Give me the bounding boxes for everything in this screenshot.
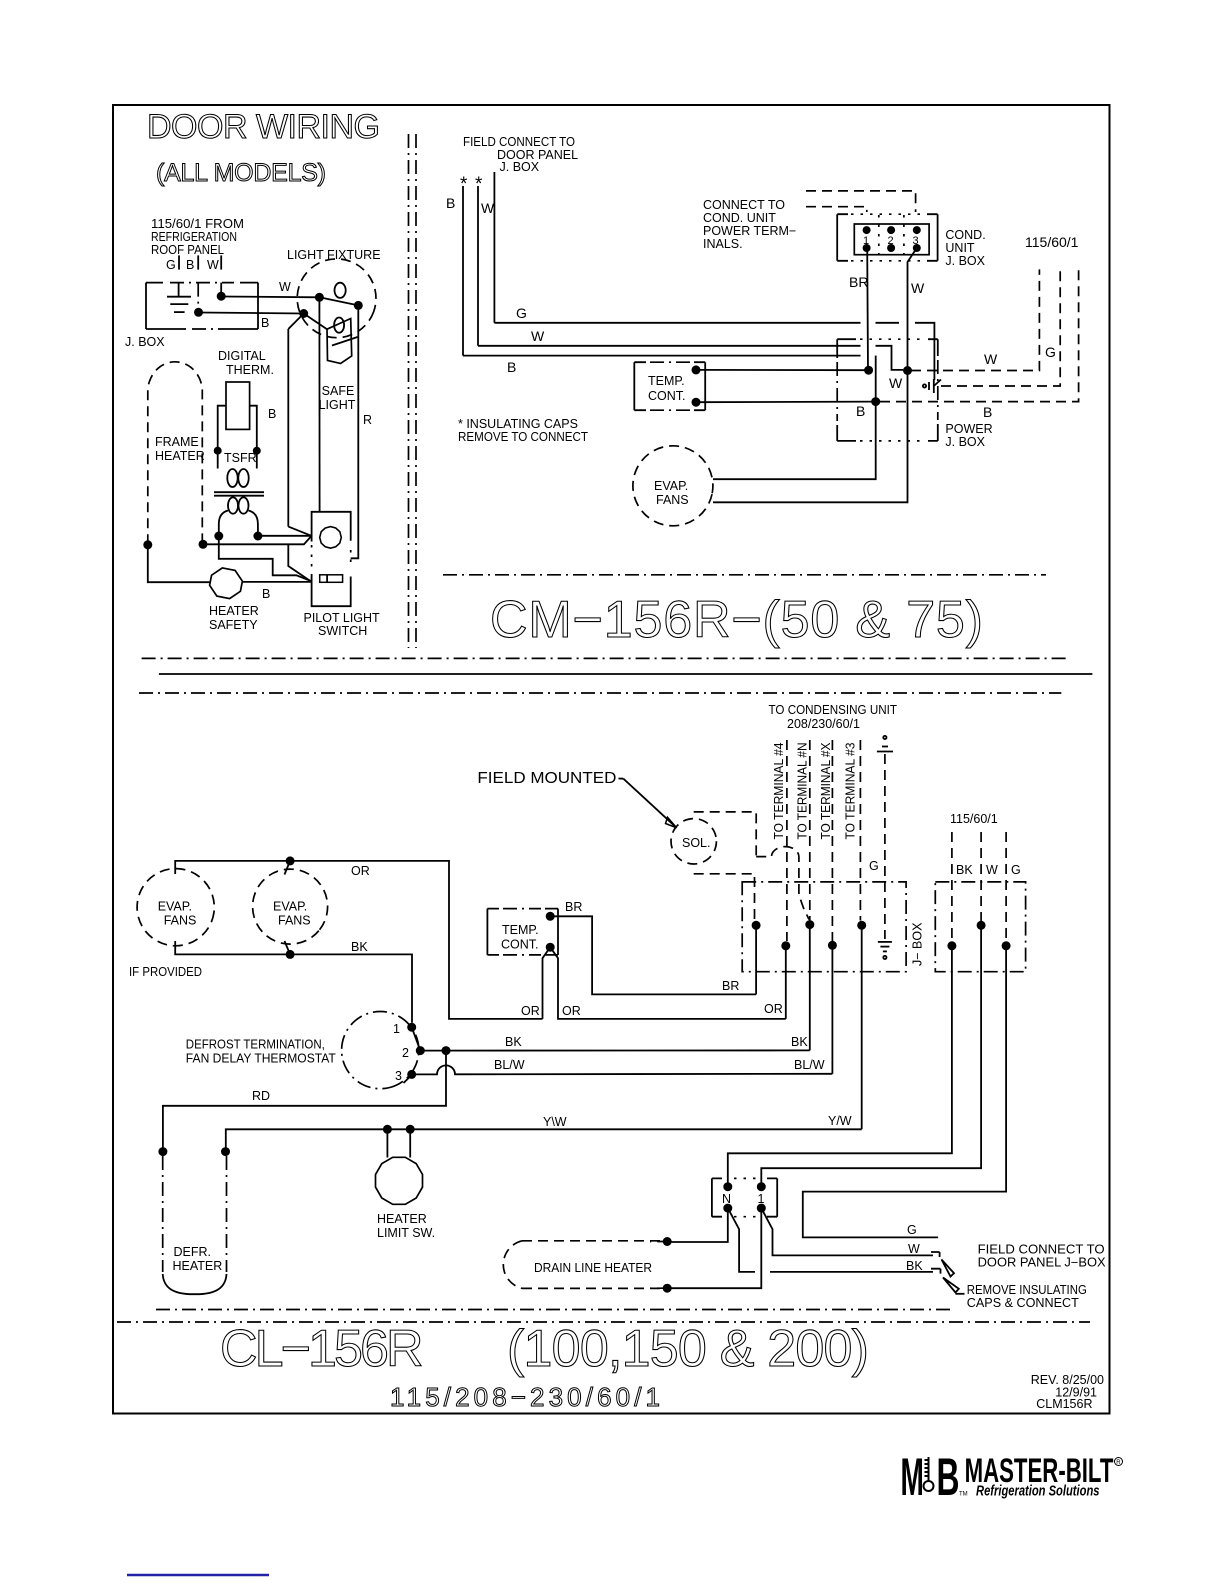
junction box J.BOX (roof panel): [125, 283, 258, 349]
wire (evap fans W): [713, 371, 908, 503]
svg-text:OR: OR: [351, 864, 370, 878]
svg-text:FIELD CONNECT TO: FIELD CONNECT TO: [978, 1243, 1105, 1257]
node jbox OR terminal: [781, 941, 790, 950]
svg-text:W: W: [481, 200, 495, 216]
svg-text:115/60/1: 115/60/1: [1025, 234, 1079, 250]
node heater limit stub right: [406, 1125, 415, 1134]
svg-text:B: B: [262, 587, 270, 601]
ground symbol (roof panel J.BOX): [167, 283, 191, 313]
svg-text:BK: BK: [505, 1035, 522, 1049]
node temp cont lower terminal 1: [546, 912, 555, 921]
svg-text:LIGHT: LIGHT: [319, 398, 356, 412]
svg-text:BR: BR: [849, 274, 868, 290]
svg-text:W: W: [889, 375, 903, 391]
temperature control TEMP. CONT. (lower): [487, 909, 558, 955]
node temp cont lower terminal 2: [546, 943, 555, 952]
bottom divider dash-dot 2: [117, 1321, 1090, 1323]
node defrost heater left: [158, 1147, 167, 1156]
pilot light switch: [304, 512, 381, 638]
svg-text:Refrigeration Solutions: Refrigeration Solutions: [976, 1484, 1100, 1500]
bottom divider dash-dot 1: [156, 1309, 953, 1311]
svg-text:CONT.: CONT.: [501, 938, 539, 952]
wire BR (cond terminal 1 down): [866, 248, 869, 370]
wire (B drop to pilot light arrow): [288, 527, 311, 536]
svg-text:REMOVE INSULATING: REMOVE INSULATING: [967, 1283, 1087, 1297]
svg-text:G: G: [516, 305, 527, 321]
svg-text:BL/W: BL/W: [494, 1058, 525, 1072]
node thermostat terminal 3: [407, 1070, 416, 1079]
node cond terminal 3 bottom: [913, 244, 921, 252]
svg-text:W: W: [207, 258, 219, 272]
border frame: [113, 105, 1110, 1414]
svg-text:*: *: [460, 174, 468, 195]
node W (roof feed): [207, 255, 226, 300]
svg-text:TSFR: TSFR: [224, 451, 257, 465]
node drain heater top: [663, 1237, 672, 1246]
node TSFR secondary left: [214, 532, 223, 541]
node jbox Y/W terminal: [857, 921, 866, 930]
svg-text:SAFE: SAFE: [322, 384, 355, 398]
svg-text:TO TERMINAL #N: TO TERMINAL #N: [796, 743, 810, 840]
wire W (cond terminal 3 down): [908, 248, 926, 371]
svg-text:BK: BK: [351, 940, 368, 954]
note CONNECT TO COND. UNIT POWER TERMINALS: [703, 198, 796, 251]
svg-text:B: B: [937, 1448, 960, 1507]
svg-text:W: W: [986, 863, 998, 877]
section divider solid: [159, 673, 1093, 675]
svg-text:B: B: [446, 195, 455, 211]
svg-text:POWER: POWER: [945, 422, 992, 436]
node (light fixture R junction): [354, 301, 363, 310]
solenoid SOL: [671, 819, 716, 864]
wire B dashed (115/60/1): [880, 269, 1079, 420]
wire (fixture to pilot switch vertical): [318, 297, 320, 512]
wire B to light fixture: [199, 313, 304, 331]
node jbox BR terminal: [752, 921, 761, 930]
wire (TSFR right to pilot light arrow): [258, 535, 312, 537]
svg-text:TO TERMINAL #4: TO TERMINAL #4: [772, 742, 786, 839]
svg-text:HEATER: HEATER: [377, 1212, 427, 1226]
note 115/60/1 FROM REFRIGERATION ROOF PANEL: [151, 217, 244, 257]
svg-text:POWER TERM−: POWER TERM−: [703, 224, 796, 238]
wire Y\W: [226, 1115, 862, 1152]
wire W (door panel): [475, 174, 903, 370]
svg-text:DEFROST TERMINATION,: DEFROST TERMINATION,: [186, 1038, 325, 1052]
svg-text:BK: BK: [956, 863, 973, 877]
section divider dash-dot 2: [139, 692, 1061, 694]
wire (TSFR left to switch arrow): [219, 536, 311, 581]
svg-text:G: G: [1045, 344, 1056, 360]
node jbox2 BK terminal: [947, 941, 956, 950]
node cond terminal 2 top: [887, 226, 895, 234]
wire OR (fans top): [175, 861, 542, 1019]
svg-text:FANS: FANS: [164, 914, 197, 928]
svg-text:FIELD MOUNTED: FIELD MOUNTED: [477, 770, 616, 787]
svg-text:J. BOX: J. BOX: [945, 435, 985, 449]
svg-text:CM−156R−(50 & 75): CM−156R−(50 & 75): [490, 591, 983, 649]
svg-text:B: B: [983, 404, 992, 420]
net TO TERMINAL #X: [819, 740, 833, 941]
svg-text:J. BOX: J. BOX: [125, 335, 165, 349]
svg-text:115/60/1: 115/60/1: [950, 812, 998, 826]
node (light fixture B junction): [299, 309, 308, 318]
net W (115/60/1): [981, 832, 998, 921]
svg-text:INALS.: INALS.: [703, 237, 743, 251]
note TO CONDENSING UNIT 208/230/60/1: [769, 703, 898, 731]
wire BR (temp cont to cond unit): [696, 274, 869, 370]
logo Master-Bilt MB mark: [901, 1447, 968, 1507]
condensing unit junction box: [837, 214, 985, 268]
svg-text:2: 2: [402, 1046, 409, 1060]
svg-text:* INSULATING CAPS: * INSULATING CAPS: [458, 417, 578, 431]
section divider dash-dot 1: [142, 657, 1066, 659]
junction box J-BOX (208/230): [742, 882, 924, 972]
node B junction (power jbox): [871, 397, 880, 406]
node fans OR junction: [286, 856, 295, 865]
svg-text:G: G: [869, 859, 879, 873]
note FIELD CONNECT TO DOOR PANEL J. BOX: [463, 135, 578, 174]
wire (drain bottom dashed stub): [650, 1287, 667, 1289]
wire (drain top dashed stub): [650, 1241, 667, 1243]
wire (evap fans B): [713, 402, 876, 480]
wire B (fixture down to switch): [268, 329, 288, 527]
svg-text:W: W: [984, 351, 998, 367]
svg-text:*: *: [475, 174, 483, 195]
terminal block N/1: [712, 1178, 777, 1216]
light fixture: [286, 248, 387, 364]
svg-text:CLM156R: CLM156R: [1036, 1397, 1092, 1411]
svg-text:3: 3: [395, 1069, 402, 1083]
node BR junction: [864, 366, 873, 375]
svg-text:LIMIT SW.: LIMIT SW.: [377, 1226, 435, 1240]
wire BL/W drop (jbox): [831, 945, 833, 1074]
wire G dashed (to jbox ground): [869, 754, 885, 939]
wire G dashed (115/60/1): [941, 269, 1060, 386]
svg-text:FIELD CONNECT TO: FIELD CONNECT TO: [463, 135, 575, 149]
svg-text:OR: OR: [562, 1004, 581, 1018]
evaporator fans 2 (lower): [237, 854, 343, 960]
wire RD: [163, 1051, 446, 1152]
svg-text:FAN DELAY THERMOSTAT: FAN DELAY THERMOSTAT: [186, 1052, 336, 1066]
svg-text:B: B: [856, 403, 865, 419]
svg-text:TO CONDENSING UNIT: TO CONDENSING UNIT: [769, 703, 898, 717]
svg-text:115/208−230/60/1: 115/208−230/60/1: [390, 1382, 660, 1412]
svg-text:J. BOX: J. BOX: [500, 160, 540, 174]
svg-text:HEATER: HEATER: [209, 604, 259, 618]
svg-text:B: B: [507, 359, 516, 375]
net TO TERMINAL #3: [844, 740, 861, 921]
node cond terminal 1 bottom: [863, 244, 871, 252]
node jbox #N terminal: [805, 920, 814, 929]
svg-text:RD: RD: [252, 1089, 270, 1103]
node terminal N bottom: [723, 1204, 732, 1213]
node BK/RD junction: [442, 1046, 451, 1055]
node cond terminal 1 top: [863, 226, 871, 234]
connector (G plug): [923, 379, 941, 393]
revision block: [1031, 1373, 1104, 1411]
node jbox BL/W terminal: [828, 941, 837, 950]
svg-text:THERM.: THERM.: [226, 363, 274, 377]
svg-text:DOOR WIRING: DOOR WIRING: [147, 108, 380, 146]
drain line heater: [503, 1241, 662, 1289]
wire BR drop (jbox): [755, 925, 757, 994]
heater limit switch: [376, 1129, 436, 1240]
wire (junction row to pilot light arrow): [203, 536, 311, 544]
svg-text:FANS: FANS: [656, 493, 689, 507]
wire G (door panel): [494, 172, 934, 380]
wire (1 to drain heater bottom): [672, 1208, 762, 1288]
node thermostat terminal 1: [407, 1023, 416, 1032]
svg-text:DEFR.: DEFR.: [174, 1245, 212, 1259]
net BK (115/60/1): [952, 832, 973, 942]
svg-text:REMOVE TO CONNECT: REMOVE TO CONNECT: [458, 430, 588, 444]
note REMOVE INSULATING CAPS & CONNECT: [967, 1283, 1087, 1310]
wire Y/W drop (jbox): [828, 925, 862, 1129]
node terminal 1 bottom: [757, 1204, 766, 1213]
svg-text:115/60/1 FROM: 115/60/1 FROM: [151, 217, 244, 231]
node frame heater right: [199, 540, 208, 549]
node fans BK junction: [286, 950, 295, 959]
svg-text:BR: BR: [722, 979, 739, 993]
wire OR drop (jbox): [785, 946, 787, 1019]
svg-text:B: B: [268, 407, 276, 421]
wire (N to drain heater top): [672, 1208, 728, 1242]
svg-text:TEMP.: TEMP.: [648, 374, 685, 388]
safe light label: [319, 384, 356, 412]
heater safety switch: [208, 566, 259, 632]
svg-text:G: G: [166, 258, 176, 272]
svg-text:W: W: [531, 328, 545, 344]
evaporator fans (upper): [625, 438, 720, 533]
node jbox2 G terminal: [1002, 941, 1011, 950]
callout arrows (remove insulating caps): [942, 1260, 965, 1294]
svg-text:TEMP.: TEMP.: [502, 923, 539, 937]
wire BK drop (jbox): [809, 925, 811, 1051]
node cond terminal 2 bottom: [887, 244, 895, 252]
wire W to light fixture: [221, 280, 319, 297]
node W junction: [903, 366, 912, 375]
evaporator fans 1 (lower): [132, 864, 219, 951]
svg-text:COND.: COND.: [945, 228, 985, 242]
svg-text:208/230/60/1: 208/230/60/1: [787, 717, 860, 731]
svg-text:BK: BK: [906, 1259, 923, 1273]
svg-text:M: M: [901, 1447, 924, 1506]
svg-text:SOL.: SOL.: [682, 836, 711, 850]
node thermostat terminal 2: [416, 1046, 425, 1055]
node jbox2 W terminal: [977, 921, 986, 930]
node cond terminal 3 top: [913, 226, 921, 234]
node temp cont terminal 1: [692, 365, 701, 374]
cut line divider: [409, 134, 417, 648]
svg-text:PILOT LIGHT: PILOT LIGHT: [304, 611, 381, 625]
svg-text:DOOR PANEL J−BOX: DOOR PANEL J−BOX: [978, 1256, 1107, 1270]
wire (heater safety to switch arrow): [242, 582, 311, 601]
wire (frame heater left to heater safety): [148, 545, 211, 582]
wire (SOL to terminal N, dashed with hop): [756, 847, 809, 920]
temperature control TEMP. CONT. (upper): [634, 362, 705, 410]
digital thermometer: [218, 349, 274, 429]
svg-text:HEATER: HEATER: [173, 1259, 223, 1273]
svg-text:EVAP.: EVAP.: [654, 479, 688, 493]
node frame heater left: [143, 540, 152, 549]
node B (roof feed): [186, 255, 203, 316]
wire (branch to switch arrow): [288, 545, 311, 582]
svg-text:DRAIN LINE HEATER: DRAIN LINE HEATER: [534, 1261, 652, 1275]
svg-text:FRAME: FRAME: [155, 435, 199, 449]
node heater limit stub left: [383, 1125, 392, 1134]
svg-text:EVAP.: EVAP.: [273, 900, 307, 914]
wire W (1 to field connect): [761, 1208, 939, 1257]
svg-text:SAFETY: SAFETY: [209, 618, 258, 632]
svg-text:ROOF PANEL: ROOF PANEL: [151, 243, 224, 257]
node temp cont terminal 2: [692, 398, 701, 407]
node defrost heater right: [221, 1147, 230, 1156]
blue footer line: [127, 1574, 269, 1577]
wire OR (temp cont tent): [521, 947, 786, 1019]
wire B (door panel): [446, 174, 861, 375]
svg-text:BL/W: BL/W: [794, 1058, 825, 1072]
svg-text:B: B: [186, 258, 194, 272]
svg-text:TO TERMINAL #X: TO TERMINAL #X: [819, 742, 833, 840]
svg-text:J. BOX: J. BOX: [945, 254, 985, 268]
svg-text:CONT.: CONT.: [648, 389, 686, 403]
svg-text:G: G: [1011, 863, 1021, 877]
svg-text:B: B: [261, 316, 269, 330]
defrost termination fan delay thermostat: [186, 999, 431, 1101]
wire BK (fans bottom): [175, 940, 412, 1023]
power junction box: [837, 339, 992, 449]
net TO TERMINAL #N: [796, 740, 810, 921]
net G (115/60/1): [1006, 832, 1021, 942]
ground (condensing unit, top): [877, 736, 893, 752]
logo registered mark: [1115, 1458, 1123, 1467]
node (light fixture W junction): [315, 293, 324, 302]
node drain heater bottom: [663, 1284, 672, 1293]
wire BK (jbox2 to terminal N): [728, 946, 952, 1187]
net TO TERMINAL #4: [772, 740, 787, 941]
node TSFR primary left: [214, 447, 222, 455]
label FIELD MOUNTED with leader: [477, 770, 676, 828]
node TSFR primary right: [253, 447, 261, 455]
svg-text:CONNECT TO: CONNECT TO: [703, 198, 785, 212]
svg-text:R: R: [1116, 1460, 1121, 1466]
field mounted enclosure (dashed box): [694, 812, 757, 921]
section divider dash-dot (above CM title): [443, 574, 1046, 576]
svg-text:BK: BK: [791, 1035, 808, 1049]
frame heater: [148, 362, 205, 544]
svg-text:W: W: [911, 280, 925, 296]
svg-text:OR: OR: [764, 1002, 783, 1016]
ground (in J-BOX): [878, 942, 892, 959]
svg-text:W: W: [279, 280, 291, 294]
svg-text:COND. UNIT: COND. UNIT: [703, 211, 776, 225]
svg-text:IF PROVIDED: IF PROVIDED: [129, 965, 202, 979]
svg-text:EVAP.: EVAP.: [158, 900, 192, 914]
transformer TSFR: [214, 406, 264, 536]
wire R (fixture down to switch): [351, 305, 372, 558]
svg-text:Y/W: Y/W: [828, 1114, 852, 1128]
svg-text:DIGITAL: DIGITAL: [218, 349, 266, 363]
defrost heater DEFR. HEATER: [163, 1156, 227, 1294]
node terminal 1 top: [757, 1182, 766, 1191]
svg-text:(ALL MODELS): (ALL MODELS): [156, 159, 326, 187]
svg-text:G: G: [907, 1223, 917, 1237]
svg-text:UNIT: UNIT: [945, 241, 975, 255]
wire BR (temp cont to jbox): [550, 900, 756, 994]
svg-text:TM: TM: [959, 1492, 968, 1498]
svg-text:1: 1: [393, 1022, 400, 1036]
wire G (jbox2 to open end): [803, 946, 1006, 1238]
note INSULATING CAPS: [458, 417, 588, 444]
svg-text:SWITCH: SWITCH: [318, 624, 367, 638]
wire W (jbox2 to terminal 1): [761, 925, 981, 1186]
wire BL/W (thermostat 3 to jbox): [412, 1058, 833, 1074]
svg-text:J− BOX: J− BOX: [911, 922, 925, 966]
svg-text:HEATER: HEATER: [155, 449, 205, 463]
svg-text:OR: OR: [521, 1004, 540, 1018]
wire BK (thermostat 2 to jbox): [420, 1035, 810, 1051]
svg-text:FANS: FANS: [278, 914, 311, 928]
wire B (temp cont to power jbox): [696, 401, 876, 404]
svg-text:TO TERMINAL #3: TO TERMINAL #3: [844, 742, 858, 839]
svg-text:R: R: [363, 413, 372, 427]
wire W dashed (115/60/1): [911, 269, 1039, 370]
svg-text:BR: BR: [565, 900, 582, 914]
svg-text:LIGHT FIXTURE: LIGHT FIXTURE: [287, 248, 381, 262]
node G (roof feed): [166, 255, 179, 272]
svg-text:CL−156R: CL−156R: [220, 1320, 424, 1378]
node terminal N top: [723, 1182, 732, 1191]
wire B corner (down to junction): [875, 356, 877, 402]
node TSFR secondary right: [253, 532, 262, 541]
svg-text:CAPS & CONNECT: CAPS & CONNECT: [967, 1296, 1079, 1310]
svg-text:(100,150 & 200): (100,150 & 200): [507, 1320, 869, 1378]
svg-text:Y\W: Y\W: [543, 1115, 567, 1129]
junction box J-BOX (115/60/1): [935, 882, 1025, 972]
note FIELD CONNECT TO DOOR PANEL J-BOX: [978, 1243, 1107, 1270]
svg-text:REFRIGERATION: REFRIGERATION: [151, 230, 237, 244]
wire BK (N to field connect): [728, 1208, 941, 1274]
svg-text:W: W: [908, 1242, 920, 1256]
wire (dashed to terminal 1): [806, 207, 867, 212]
wire (dashed to terminal 3): [806, 191, 916, 212]
